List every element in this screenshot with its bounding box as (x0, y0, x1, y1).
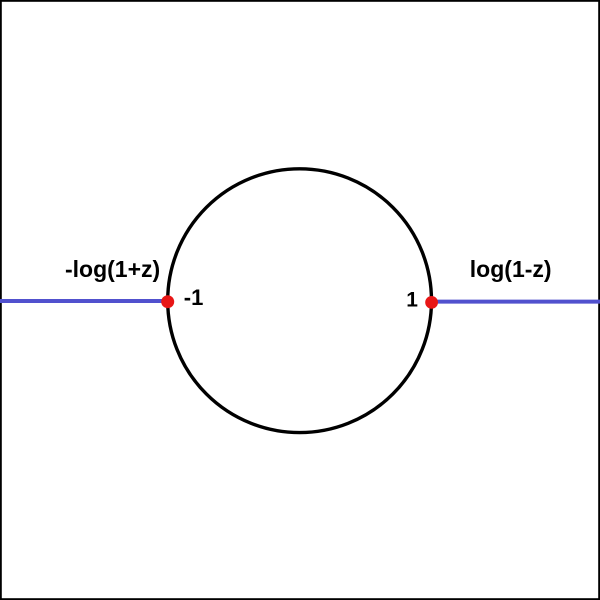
node: branch point at z=+1 (425, 296, 438, 309)
svg-text:1: 1 (406, 289, 418, 312)
svg-text:log(1-z): log(1-z) (470, 256, 552, 282)
node: branch point at z=-1 (161, 295, 174, 308)
svg-text:-log(1+z): -log(1+z) (65, 256, 160, 282)
wire: left branch cut line (negative real axis) (0, 299, 168, 303)
wire: right branch cut line (positive real axis) (431, 300, 600, 304)
svg-text:-1: -1 (184, 285, 204, 310)
circle: unit circle |z|=1 (168, 169, 432, 433)
